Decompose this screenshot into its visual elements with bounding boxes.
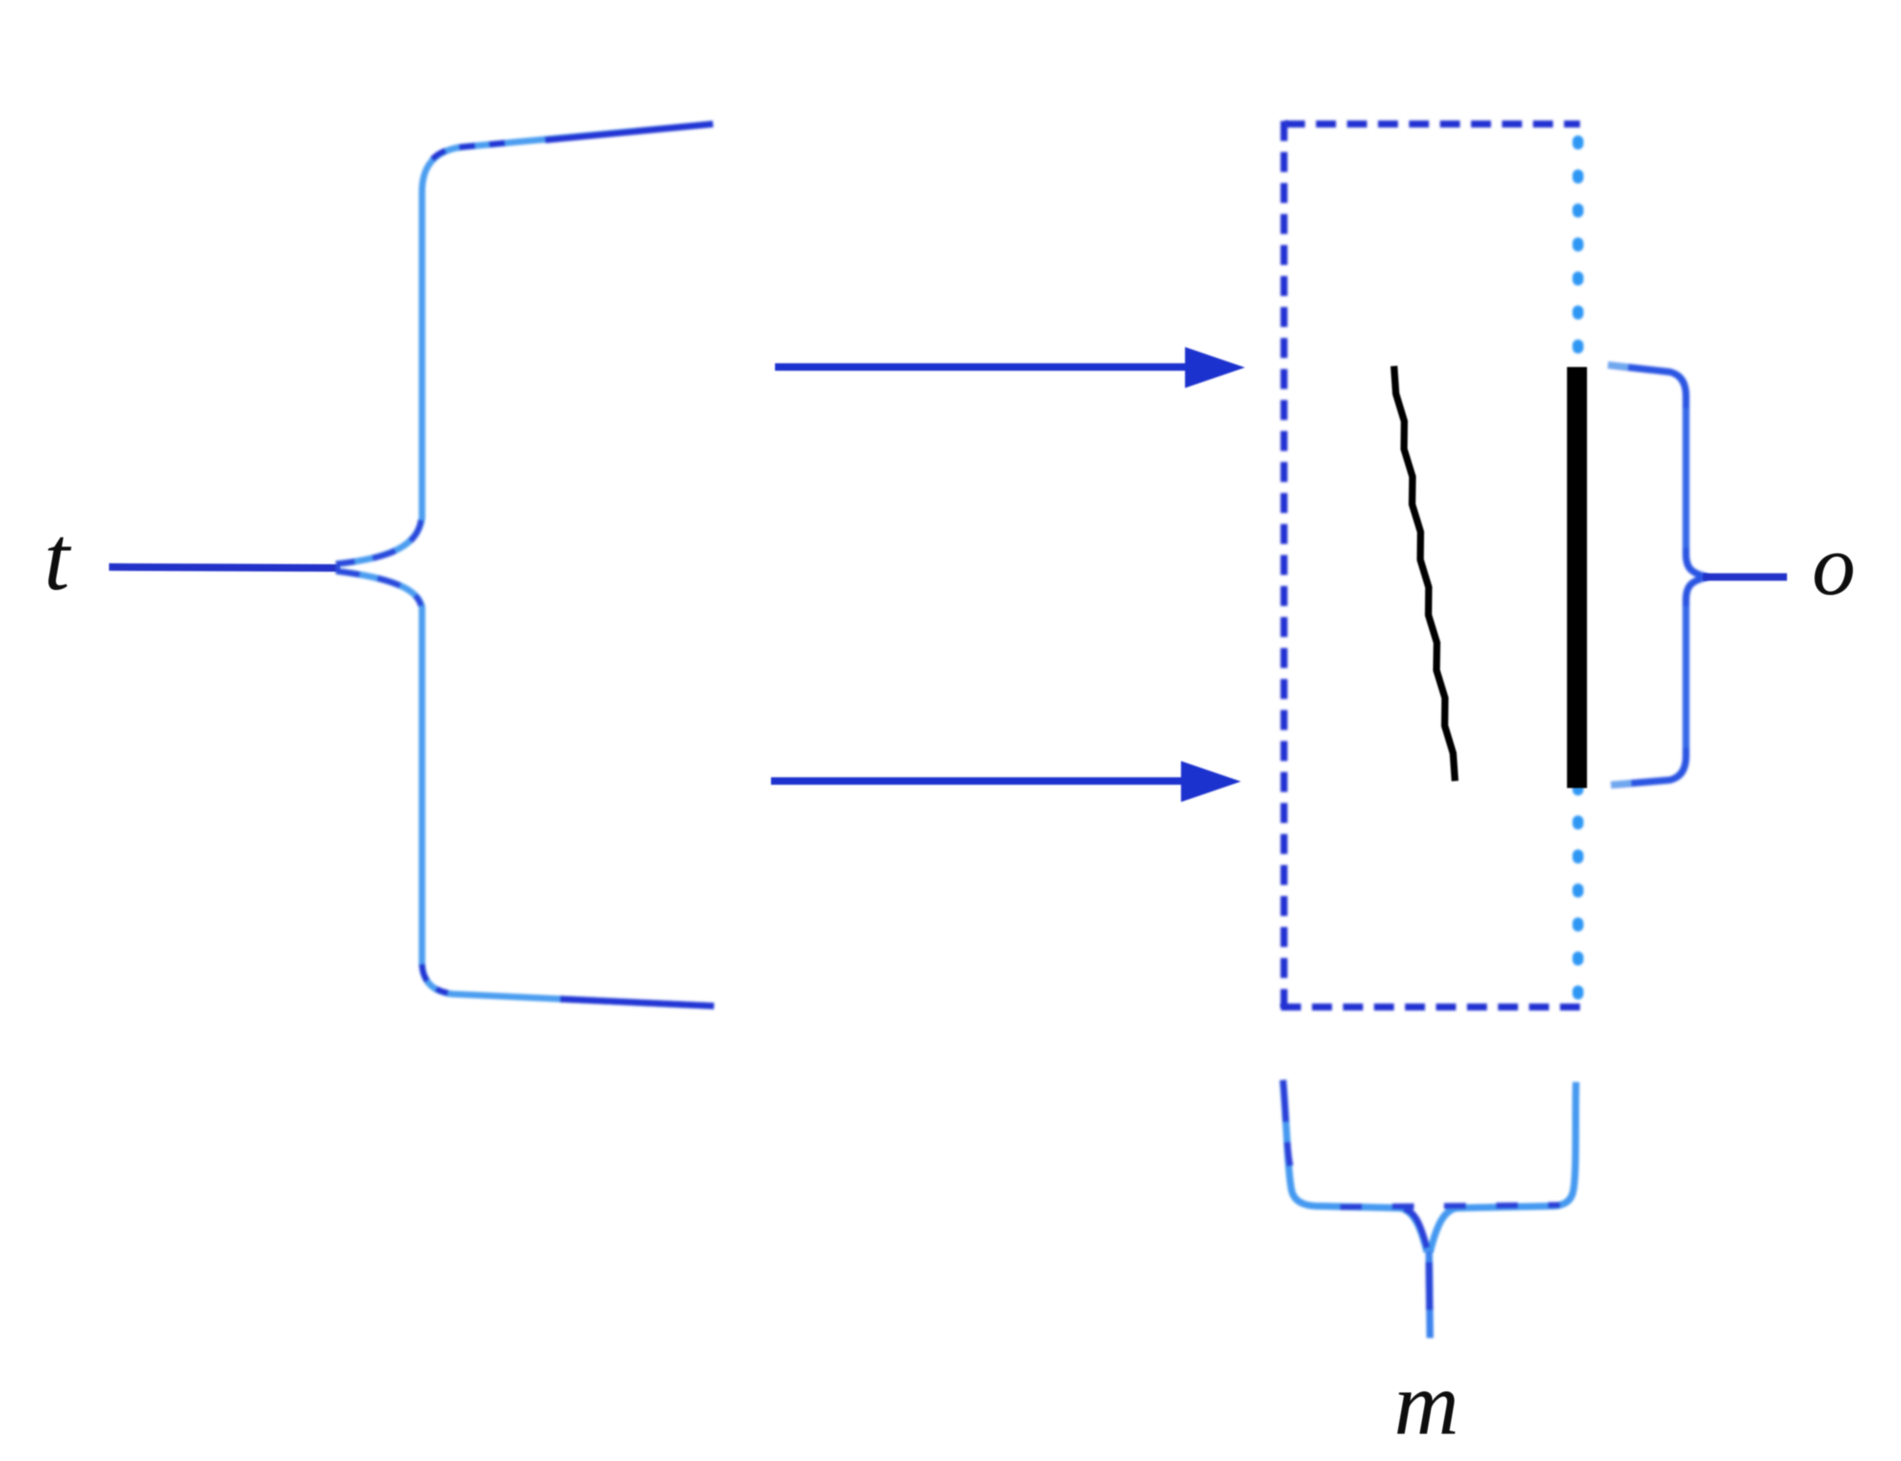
arrow 1 (top) [775, 347, 1245, 388]
right curly brace [1608, 365, 1707, 785]
left brace dark overlay segments [545, 124, 713, 140]
black slanted stroke inside box [1394, 366, 1455, 781]
wire pointer tail from bottom brace cusp to m [1429, 1250, 1430, 1338]
arrow 2 (bottom) [771, 761, 1241, 802]
black vertical bar on box right edge [1567, 367, 1587, 788]
svg-text:o: o [1812, 516, 1856, 613]
bottom curly brace (under box) [1283, 1080, 1576, 1252]
dotted box right edge [1573, 141, 1584, 1008]
svg-text:m: m [1394, 1355, 1459, 1454]
left curly brace (light base) [336, 124, 714, 1006]
dashed box left edge [1281, 121, 1288, 1008]
wire pointer from t to left brace cusp [109, 567, 340, 568]
dashed box bottom edge [1281, 1004, 1580, 1011]
bottom brace dark overlay segments [1283, 1080, 1290, 1166]
svg-text:t: t [44, 507, 72, 609]
wire pointer from right brace cusp to o [1703, 573, 1787, 581]
dashed box top edge [1285, 121, 1580, 128]
